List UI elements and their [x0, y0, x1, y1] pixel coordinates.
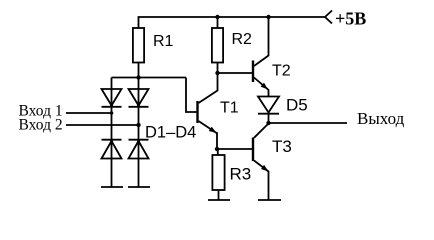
- node rail-T2 collector junction dot: [266, 15, 270, 19]
- diode D5 cathode bar: [258, 113, 279, 115]
- diode D3 cathode bar: [102, 139, 122, 141]
- wire T1 emitter node dot: [215, 147, 219, 151]
- diode D2 cathode bar: [129, 106, 149, 108]
- svg-text:+5В: +5В: [335, 9, 366, 29]
- node output junction dot: [266, 121, 270, 125]
- +5V open terminal chevron: [325, 11, 332, 24]
- wire right diode column: [138, 78, 140, 188]
- wire input 2 line: [66, 124, 139, 126]
- wire output line: [269, 122, 348, 124]
- diode D2 top-right (anode up) triangle: [129, 89, 149, 106]
- svg-text:R2: R2: [232, 31, 253, 48]
- diode D4 cathode bar: [129, 139, 149, 141]
- node input2 junction dot: [136, 123, 140, 127]
- transistor T3 emitter arrowhead: [261, 165, 269, 172]
- wire R3 top lead: [217, 149, 219, 155]
- ground right diode column: [128, 186, 150, 188]
- node D4 apex dot: [137, 140, 140, 143]
- transistor T1 emitter arrowhead: [209, 127, 217, 133]
- wire +5V rail with R1 top lead: [139, 17, 326, 28]
- svg-text:T2: T2: [272, 63, 291, 80]
- transistor T1 base bar: [196, 101, 198, 123]
- svg-text:R1: R1: [153, 33, 174, 50]
- diode D4 bottom-right clamp triangle: [129, 141, 149, 159]
- transistor T2 emitter arrowhead: [261, 83, 268, 90]
- transistor T2 base bar: [252, 61, 254, 83]
- wire T3 base wire: [217, 148, 252, 150]
- ground R3: [208, 199, 230, 201]
- svg-text:D1–D4: D1–D4: [145, 124, 196, 142]
- wire T2 base wire: [218, 72, 253, 74]
- diode D3 bottom-left clamp triangle: [102, 141, 122, 159]
- wire anode node to T1 base: [186, 78, 197, 113]
- svg-text:Вход 2: Вход 2: [19, 117, 63, 134]
- resistor R2: [212, 28, 223, 63]
- wire common anode node horizontal: [112, 77, 187, 79]
- transistor T1 emitter: [199, 121, 218, 149]
- node common anode junction dot: [136, 75, 140, 79]
- transistor T2 collector: [254, 17, 269, 66]
- transistor T2 emitter: [254, 78, 269, 97]
- transistor T3 base bar: [252, 138, 254, 162]
- wire R1 bottom lead to common anode node: [138, 63, 140, 78]
- svg-text:R3: R3: [230, 165, 252, 184]
- node R2-T1-T2 junction dot: [215, 71, 219, 75]
- node D3 apex dot: [110, 140, 113, 143]
- svg-text:T1: T1: [220, 100, 239, 117]
- svg-text:T3: T3: [272, 137, 292, 156]
- svg-text:D5: D5: [286, 96, 308, 115]
- wire D5 cathode to output node: [268, 114, 270, 123]
- transistor T3 emitter: [254, 161, 269, 201]
- node input1 junction dot: [110, 111, 114, 115]
- node rail-R2 junction dot: [215, 15, 219, 19]
- ground left diode column: [101, 186, 123, 188]
- diode D5 (anode up) triangle: [258, 97, 279, 113]
- transistor T3 collector: [254, 124, 269, 138]
- diode D1 top-left (anode up) triangle: [102, 89, 122, 106]
- node D2 apex dot: [137, 104, 140, 107]
- wire R3 bottom lead: [218, 190, 220, 200]
- diode D1 cathode bar: [102, 106, 122, 108]
- transistor T1 collector: [199, 73, 218, 103]
- resistor R1: [133, 28, 144, 63]
- wire R2 bottom lead: [217, 63, 219, 74]
- node D1 apex dot: [110, 104, 113, 107]
- wire left diode column: [111, 78, 113, 188]
- svg-text:Выход: Выход: [357, 109, 405, 128]
- ground T3 emitter: [258, 199, 281, 201]
- wire R2 top lead: [217, 17, 219, 28]
- resistor R3: [212, 155, 224, 190]
- wire input 1 line: [66, 112, 112, 114]
